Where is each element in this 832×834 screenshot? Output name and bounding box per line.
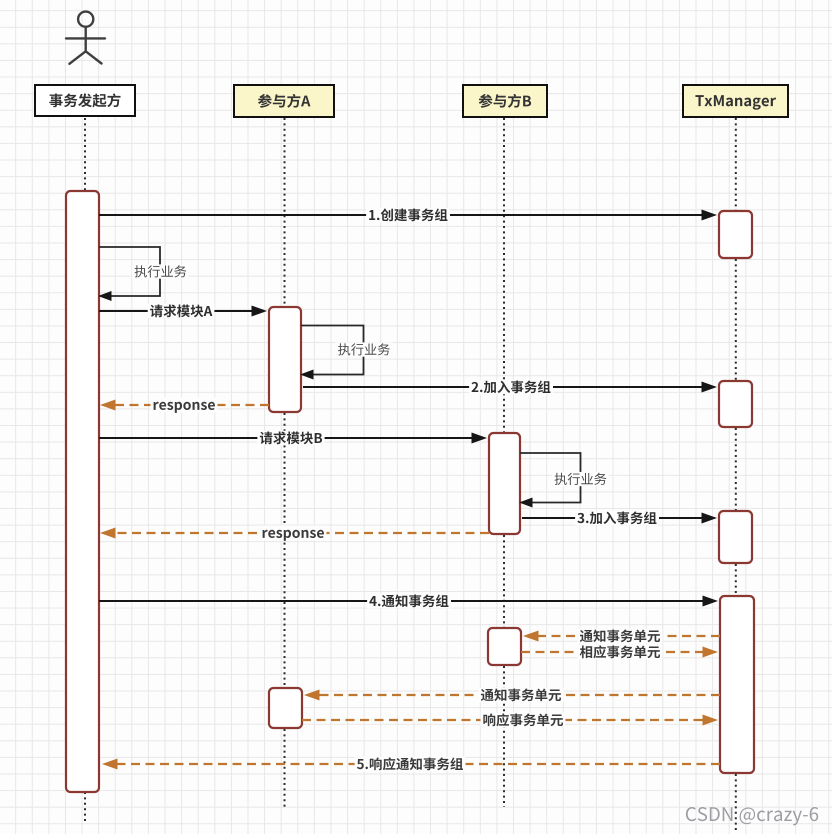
arrow 1.创建事务组 (initiator → TxManager) [99,208,717,223]
arrow 2.加入事务组 (参与方A → TxManager) [303,380,717,395]
activation 参与方A (module A) [269,307,301,412]
arrow 通知事务单元 (TxManager → 参与方B) [523,629,720,644]
arrow response (参与方A → initiator) [100,397,269,412]
activation 参与方A (notify unit) [269,688,302,728]
activation TxManager (join group A) [719,381,752,427]
header box 参与方A [234,85,334,117]
arrow 4.通知事务组 (initiator → TxManager) [99,594,718,609]
arrow 3.加入事务组 (参与方B → TxManager) [522,511,717,526]
header box 事务发起方 [35,85,135,116]
self-loop 执行业务 (参与方B) [519,453,609,508]
arrow 请求模块B (initiator → 参与方B) [99,431,487,446]
activation 事务发起方 (main) [66,191,99,792]
self-loop 执行业务 (参与方A) [300,326,392,380]
arrow 请求模块A (initiator → 参与方A) [99,304,267,319]
arrow 相应事务单元 (参与方B → TxManager) [521,645,718,660]
header box TxManager [683,85,788,117]
arrow 5.响应通知事务组 (TxManager → initiator) [102,757,720,772]
actor 事务发起方 (stick figure) [66,12,105,64]
lifeline 事务发起方 [84,118,86,822]
activation 参与方B (notify unit) [488,628,521,665]
arrow response (参与方B → initiator) [100,525,489,540]
arrow 通知事务单元 (TxManager → 参与方A) [304,688,720,703]
arrow 响应事务单元 (参与方A → TxManager) [302,713,718,728]
lifeline 参与方A [284,118,286,807]
lifeline TxManager [735,118,737,831]
activation TxManager (notify phase) [720,596,754,773]
activation 参与方B (module B) [489,433,520,534]
activation TxManager (create group) [719,211,752,258]
activation TxManager (join group B) [719,511,752,563]
self-loop 执行业务 (initiator) [98,247,189,301]
header box 参与方B [463,85,547,117]
watermark CSDN @crazy-6 [686,807,818,825]
lifeline 参与方B [503,118,505,807]
